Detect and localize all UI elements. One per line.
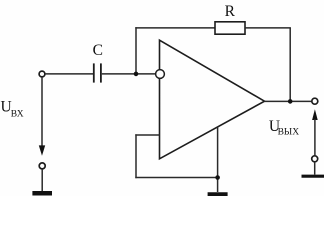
U_BX arrow shaft (down) — [41, 77, 43, 147]
U_ВЫХ arrow shaft — [314, 119, 316, 155]
junction dot output / feedback — [288, 99, 293, 104]
U_BX arrowhead — [39, 145, 45, 155]
wire non-inverting input horizontal — [135, 134, 159, 136]
wire input terminal to capacitor — [45, 73, 93, 75]
svg-text:UВХ: UВХ — [1, 98, 24, 119]
capacitor C left plate — [93, 63, 95, 82]
inverting input bubble — [156, 70, 165, 79]
wire lower terminal to ground (right) — [314, 162, 316, 175]
ground (right) — [302, 175, 324, 178]
ground (left) — [32, 191, 52, 196]
junction dot at common pin — [215, 175, 220, 180]
svg-text:UВЫХ: UВЫХ — [269, 118, 299, 137]
wire non-inverting input vertical — [135, 134, 137, 178]
wire capacitor to inverting input — [102, 73, 156, 75]
U_ВЫХ arrowhead (up) — [312, 109, 318, 120]
wire lower terminal to ground (left) — [41, 169, 43, 192]
wire feedback top rail left segment — [135, 27, 215, 29]
svg-text:R: R — [225, 3, 236, 20]
wire non-inverting input to ground stem — [135, 177, 217, 179]
node A junction dot — [134, 72, 139, 77]
op-amp triangle — [160, 40, 265, 159]
wire op-amp common pin down — [217, 128, 219, 193]
output terminal (open circle) — [312, 98, 318, 104]
wire feedback vertical right (rail down to output) — [289, 28, 291, 102]
capacitor C right plate — [100, 63, 102, 82]
svg-text:C: C — [93, 42, 103, 59]
ground (middle) — [208, 192, 228, 196]
U_BX lower terminal (open circle) — [39, 163, 45, 169]
U_ВЫХ lower terminal (open circle) — [312, 156, 318, 162]
wire op-amp output — [265, 100, 312, 102]
wire feedback top rail right segment — [245, 27, 291, 29]
input terminal (left, open circle) — [39, 71, 45, 77]
wire feedback vertical left (node A up to rail) — [135, 27, 137, 74]
resistor R (box) — [215, 22, 245, 34]
